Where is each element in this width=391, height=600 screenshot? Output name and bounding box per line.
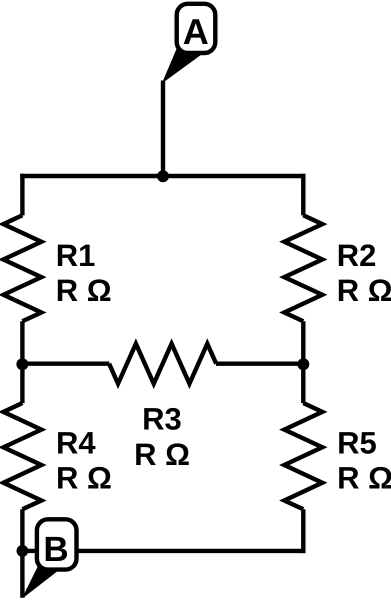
svg-text:R5: R5 [337,426,377,461]
wire left rail lower to terminal B [20,509,24,598]
resistor R3 [109,344,216,384]
junction node middle right [297,358,309,370]
wire from node A lead [161,81,165,179]
wire bottom horizontal [22,549,305,553]
node A callout tail [163,50,200,83]
node A callout box [177,4,216,53]
resistor R4 [3,403,41,509]
svg-text:R Ω: R Ω [56,273,112,308]
wire right rail middle [301,321,305,403]
svg-text:R3: R3 [142,402,182,437]
svg-text:B: B [43,530,68,569]
resistor R2 [284,215,322,321]
wire middle right [216,362,303,366]
node B callout tail [23,567,58,597]
wire left rail middle [20,321,24,403]
wire right rail lower [301,509,305,553]
resistor R1 [3,215,41,321]
svg-text:R1: R1 [56,238,96,273]
svg-text:R2: R2 [337,238,377,273]
svg-text:R Ω: R Ω [134,437,190,472]
wire middle left [22,362,109,366]
junction node at B [17,545,29,557]
svg-text:R4: R4 [56,426,96,461]
junction node middle left [16,358,28,370]
wire top horizontal [20,174,305,178]
junction node at A lead / top wire [157,170,169,182]
wire right rail upper [301,174,305,216]
node B callout box [37,519,77,569]
svg-text:R Ω: R Ω [337,273,391,308]
svg-text:R Ω: R Ω [56,461,112,496]
resistor R5 [284,403,322,509]
svg-text:A: A [183,11,209,52]
svg-text:R Ω: R Ω [337,461,391,496]
wire left rail upper [20,174,24,216]
